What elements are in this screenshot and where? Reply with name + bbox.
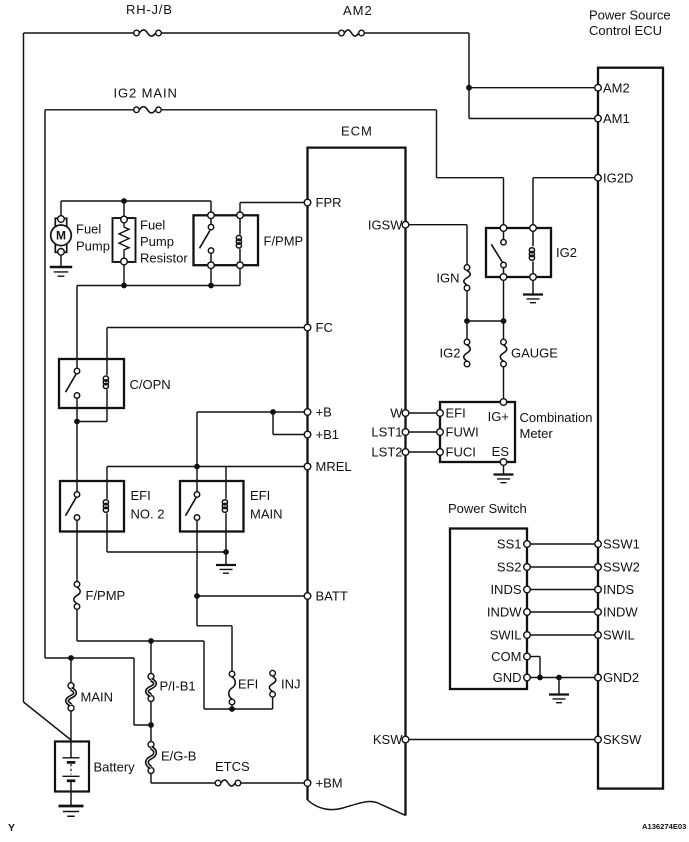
svg-text:IG2: IG2 (440, 346, 461, 361)
svg-text:INDW: INDW (603, 605, 638, 620)
svg-text:GND2: GND2 (603, 670, 639, 685)
svg-text:SWIL: SWIL (490, 628, 522, 643)
svg-text:Y: Y (8, 822, 15, 834)
svg-text:W: W (390, 406, 403, 421)
svg-text:ECM: ECM (341, 124, 373, 139)
svg-text:AM2: AM2 (343, 3, 373, 18)
svg-text:AM2: AM2 (603, 81, 630, 96)
svg-text:SKSW: SKSW (603, 732, 642, 747)
svg-text:F/PMP: F/PMP (86, 588, 126, 603)
svg-text:Control ECU: Control ECU (589, 23, 662, 38)
svg-text:INDS: INDS (490, 582, 521, 597)
svg-text:IG+: IG+ (488, 409, 509, 424)
svg-text:FUWI: FUWI (446, 425, 479, 440)
svg-text:GAUGE: GAUGE (511, 346, 558, 361)
svg-text:EFI: EFI (250, 488, 270, 503)
svg-text:SS2: SS2 (497, 560, 522, 575)
svg-text:M: M (56, 229, 66, 243)
svg-text:AM1: AM1 (603, 111, 630, 126)
svg-text:A136274E03: A136274E03 (642, 822, 686, 831)
svg-text:+B: +B (316, 405, 332, 420)
svg-text:IG2D: IG2D (603, 170, 633, 185)
svg-text:EFI: EFI (238, 677, 258, 692)
svg-text:GND: GND (493, 670, 522, 685)
svg-text:E/G-B: E/G-B (161, 749, 196, 764)
svg-text:C/OPN: C/OPN (130, 377, 171, 392)
svg-text:Power Source: Power Source (589, 8, 671, 23)
svg-text:IGN: IGN (436, 271, 459, 286)
svg-text:IGSW: IGSW (368, 217, 403, 232)
svg-text:Resistor: Resistor (140, 251, 188, 266)
svg-text:F/PMP: F/PMP (264, 234, 304, 249)
svg-text:Meter: Meter (520, 426, 554, 441)
svg-text:BATT: BATT (316, 589, 348, 604)
svg-text:RH-J/B: RH-J/B (126, 2, 173, 17)
svg-text:INJ: INJ (281, 677, 301, 692)
svg-text:P/I-B1: P/I-B1 (160, 679, 196, 694)
svg-text:Fuel: Fuel (76, 222, 101, 237)
svg-text:SSW2: SSW2 (603, 560, 640, 575)
svg-text:IG2: IG2 (556, 245, 577, 260)
svg-text:ES: ES (492, 444, 510, 459)
svg-text:COM: COM (491, 649, 521, 664)
svg-text:INDS: INDS (603, 582, 634, 597)
svg-text:Fuel: Fuel (140, 218, 165, 233)
svg-text:FPR: FPR (316, 195, 342, 210)
svg-text:Combination: Combination (520, 410, 593, 425)
svg-text:LST1: LST1 (371, 425, 402, 440)
svg-text:FUCI: FUCI (446, 445, 476, 460)
svg-text:SSW1: SSW1 (603, 537, 640, 552)
svg-text:FC: FC (316, 320, 333, 335)
svg-text:EFI: EFI (131, 488, 151, 503)
svg-text:NO. 2: NO. 2 (131, 507, 165, 522)
svg-text:LST2: LST2 (371, 445, 402, 460)
svg-text:INDW: INDW (487, 605, 522, 620)
svg-text:Pump: Pump (76, 239, 110, 254)
svg-text:SWIL: SWIL (603, 628, 635, 643)
svg-text:MAIN: MAIN (81, 690, 114, 705)
svg-text:+B1: +B1 (316, 427, 340, 442)
svg-text:KSW: KSW (373, 732, 403, 747)
svg-text:Pump: Pump (140, 234, 174, 249)
svg-text:ETCS: ETCS (215, 759, 250, 774)
svg-text:MREL: MREL (316, 459, 352, 474)
svg-text:Battery: Battery (94, 760, 136, 775)
svg-text:SS1: SS1 (497, 537, 522, 552)
svg-text:Power Switch: Power Switch (448, 501, 527, 516)
svg-text:+BM: +BM (316, 776, 343, 791)
svg-text:MAIN: MAIN (250, 507, 283, 522)
svg-text:IG2 MAIN: IG2 MAIN (114, 86, 178, 101)
svg-text:EFI: EFI (446, 406, 466, 421)
